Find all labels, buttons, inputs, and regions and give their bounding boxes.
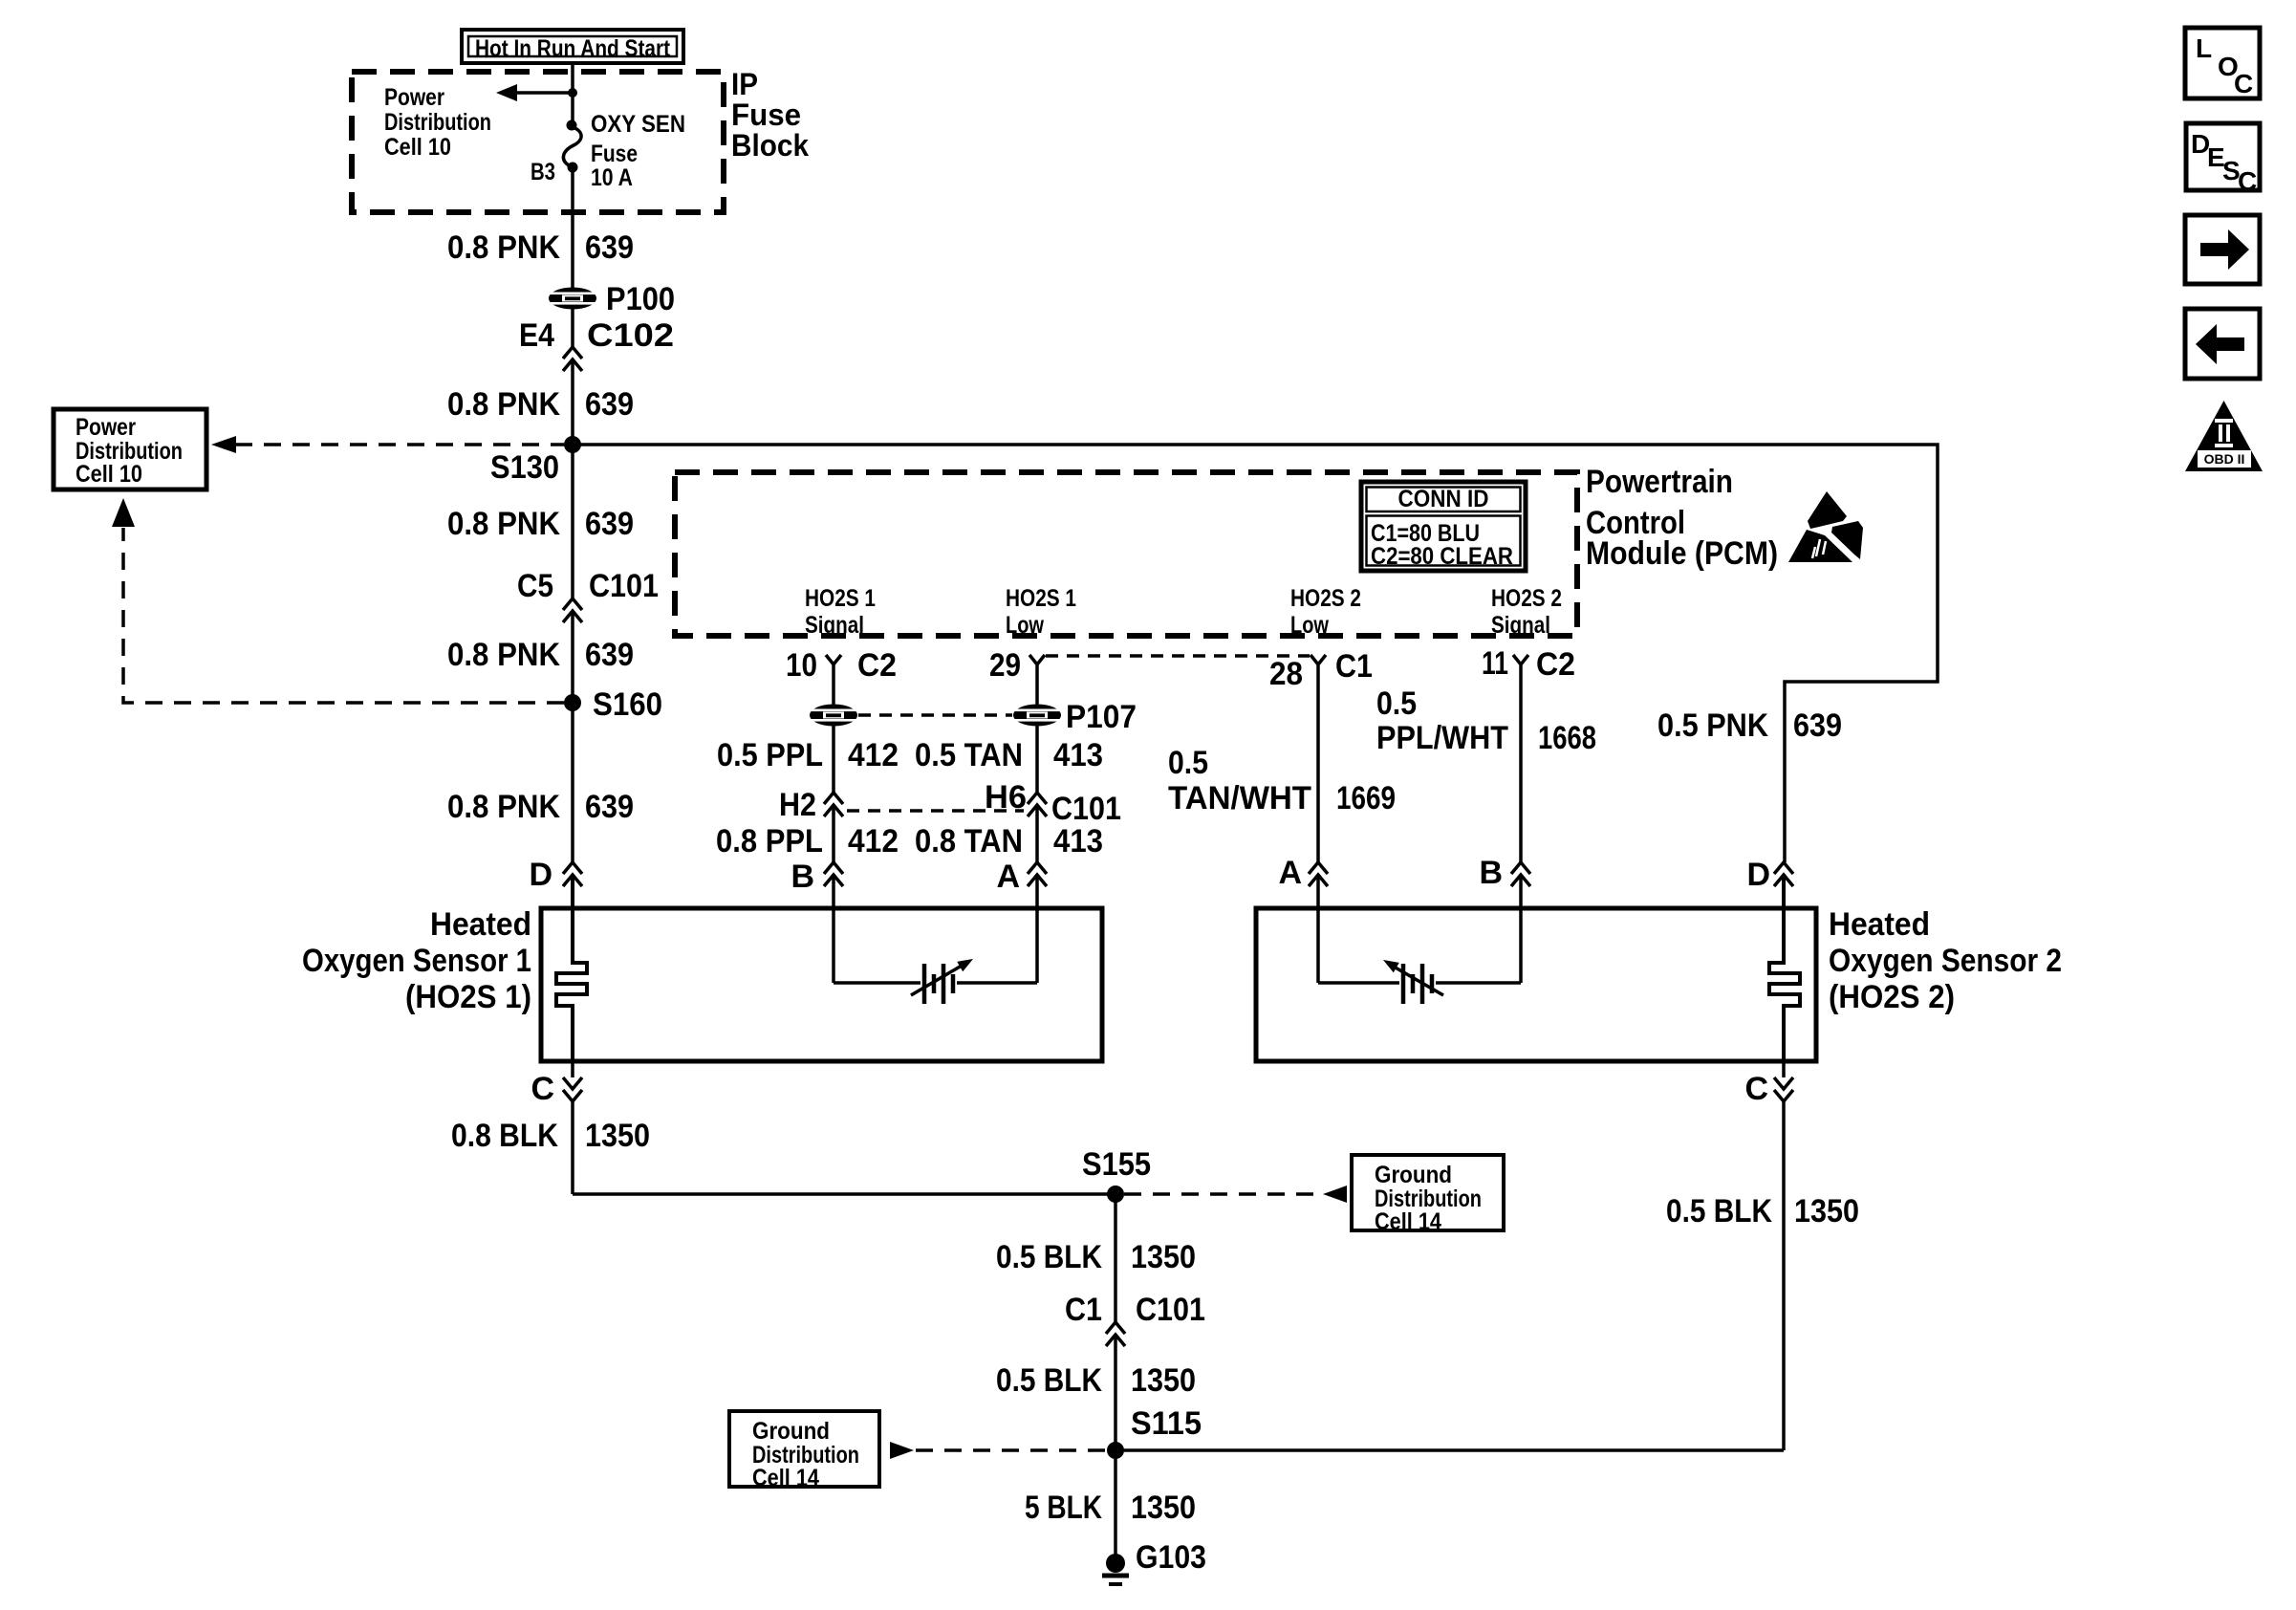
svg-text:IP: IP bbox=[731, 67, 758, 101]
svg-text:C102: C102 bbox=[587, 317, 674, 354]
svg-text:CONN ID: CONN ID bbox=[1398, 486, 1489, 512]
svg-text:0.8 PNK: 0.8 PNK bbox=[447, 229, 560, 266]
svg-text:G103: G103 bbox=[1136, 1539, 1206, 1576]
svg-text:C: C bbox=[2234, 69, 2253, 98]
svg-text:L: L bbox=[2196, 33, 2212, 63]
dashed link between P107 grommets bbox=[858, 713, 1012, 717]
svg-text:Module (PCM): Module (PCM) bbox=[1586, 535, 1778, 572]
svg-text:C101: C101 bbox=[1051, 791, 1121, 827]
svg-text:Hot In Run And Start: Hot In Run And Start bbox=[475, 35, 671, 62]
CONN ID box bbox=[1361, 482, 1526, 571]
splice S155 bbox=[1082, 1146, 1151, 1203]
wire 0.8 TAN 413 (H6 to sensor pin A) bbox=[1035, 805, 1039, 862]
svg-text:Block: Block bbox=[731, 128, 809, 163]
svg-text:H2: H2 bbox=[779, 787, 816, 823]
svg-text:C1: C1 bbox=[1335, 648, 1373, 685]
svg-text:11: 11 bbox=[1482, 645, 1508, 682]
svg-text:S155: S155 bbox=[1082, 1146, 1151, 1183]
wire 0.5 BLK 1350 (HO2S2 C to S115) bbox=[1666, 1101, 1859, 1450]
dashed reference S155 to ground distribution cell 14 bbox=[1124, 1186, 1347, 1203]
svg-text:C: C bbox=[1744, 1071, 1768, 1107]
dashed link pin 29 to pin 28 bbox=[1046, 654, 1310, 658]
svg-text:0.5 BLK: 0.5 BLK bbox=[1666, 1193, 1772, 1229]
wire 0.5 BLK 1350 (S155 to C101) bbox=[996, 1194, 1196, 1322]
svg-text:OXY SEN: OXY SEN bbox=[591, 111, 685, 138]
splice S130 bbox=[490, 436, 581, 486]
svg-text:P107: P107 bbox=[1066, 699, 1137, 735]
HO2S2 pin A bbox=[1278, 855, 1328, 891]
wire 0.8 BLK 1350 (HO2S1 C to S155) bbox=[451, 1101, 1116, 1194]
svg-text:(HO2S 2): (HO2S 2) bbox=[1829, 979, 1955, 1015]
svg-text:C2: C2 bbox=[1536, 646, 1575, 683]
grommet P107 (low wire) bbox=[1013, 699, 1137, 735]
PCM pin name: HO2S 2 Signal bbox=[1491, 585, 1562, 639]
svg-text:HO2S 1: HO2S 1 bbox=[805, 585, 876, 612]
wire S130 to PCM pin D feed (top right run) bbox=[573, 445, 1938, 862]
LOC icon box bbox=[2185, 28, 2260, 98]
svg-text:Signal: Signal bbox=[1491, 612, 1550, 639]
svg-text:(HO2S 1): (HO2S 1) bbox=[405, 979, 531, 1015]
PCM pin name: HO2S 2 Low bbox=[1290, 585, 1361, 639]
svg-text:29: 29 bbox=[989, 647, 1021, 684]
dashed reference S160 to power distribution cell 10 bbox=[112, 498, 564, 703]
PCM dashed box bbox=[675, 472, 1577, 636]
svg-text:639: 639 bbox=[1793, 707, 1842, 744]
HO2S1 label bbox=[302, 906, 531, 1015]
PCM pin 10 C2 bbox=[786, 647, 897, 684]
splice S160 bbox=[564, 686, 662, 723]
ground G103 bbox=[1102, 1539, 1206, 1584]
svg-text:C101: C101 bbox=[1136, 1292, 1205, 1328]
svg-text:C2=80 CLEAR: C2=80 CLEAR bbox=[1371, 543, 1513, 570]
HO2S1 pin C bbox=[531, 1061, 582, 1107]
svg-text:Fuse: Fuse bbox=[591, 141, 638, 167]
wire pin29 to P107 bbox=[1035, 677, 1039, 706]
svg-text:0.8 BLK: 0.8 BLK bbox=[451, 1118, 558, 1154]
svg-text:639: 639 bbox=[585, 506, 634, 542]
svg-text:Signal: Signal bbox=[805, 612, 864, 639]
wire S130 to C101: 0.8 PNK 639 bbox=[571, 445, 574, 598]
wire 0.8 PPL 412 (H2 to sensor pin B) bbox=[832, 805, 835, 862]
svg-text:Oxygen Sensor 1: Oxygen Sensor 1 bbox=[302, 943, 531, 979]
HO2S2 pin B bbox=[1479, 855, 1530, 891]
heater element HO2S2 bbox=[1769, 875, 1800, 1061]
svg-text:Heated: Heated bbox=[430, 906, 531, 943]
wire 5 BLK 1350 (S115 to G103) bbox=[1025, 1450, 1196, 1563]
svg-text:B: B bbox=[1479, 855, 1503, 891]
wire: hot feed into fuse block bbox=[571, 63, 574, 125]
svg-text:0.5: 0.5 bbox=[1168, 745, 1208, 781]
svg-text:412: 412 bbox=[848, 737, 899, 773]
wire C101 to S160: 0.8 PNK 639 bbox=[571, 611, 574, 703]
svg-text:1669: 1669 bbox=[1336, 780, 1396, 816]
svg-text:639: 639 bbox=[585, 386, 634, 423]
title box: Hot In Run And Start bbox=[462, 30, 683, 63]
svg-text:413: 413 bbox=[1053, 737, 1103, 773]
HO2S1 inner wire pin A bbox=[1035, 875, 1039, 983]
svg-text:HO2S 2: HO2S 2 bbox=[1290, 585, 1361, 612]
wire pin10 to P107 bbox=[832, 677, 835, 706]
svg-text:B3: B3 bbox=[531, 159, 555, 185]
svg-text:1350: 1350 bbox=[1131, 1239, 1196, 1275]
svg-text:0.8 PNK: 0.8 PNK bbox=[447, 637, 560, 673]
svg-text:C5: C5 bbox=[517, 568, 553, 604]
wire 0.8 PNK 639 (fuse to P100) bbox=[571, 167, 574, 289]
dashed reference S115 to ground distribution cell 14 (left) bbox=[890, 1442, 1107, 1459]
HO2S1 pin D bbox=[529, 857, 582, 893]
svg-text:0.5: 0.5 bbox=[1376, 685, 1417, 722]
OBD II icon bbox=[2185, 401, 2263, 471]
IP fuse block dashed box bbox=[352, 72, 724, 212]
HO2S1 pin B bbox=[791, 859, 843, 895]
svg-text:0.5 BLK: 0.5 BLK bbox=[996, 1362, 1102, 1399]
svg-text:0.8 PNK: 0.8 PNK bbox=[447, 506, 560, 542]
svg-text:Distribution: Distribution bbox=[384, 109, 491, 136]
svg-text:Heated: Heated bbox=[1829, 906, 1930, 943]
svg-text:HO2S 2: HO2S 2 bbox=[1491, 585, 1562, 612]
ground distribution cell 14 box (right) bbox=[1352, 1155, 1504, 1235]
svg-text:PPL/WHT: PPL/WHT bbox=[1376, 720, 1508, 756]
svg-text:Fuse: Fuse bbox=[731, 98, 801, 132]
wire 0.5 PPL/WHT 1668 (pin 11 to sensor 2 pin B) bbox=[1519, 677, 1523, 862]
svg-text:639: 639 bbox=[585, 789, 634, 825]
svg-text:C1: C1 bbox=[1065, 1292, 1102, 1328]
ground distribution cell 14 box (left) bbox=[729, 1411, 879, 1491]
connector C101 terminal C5 bbox=[517, 568, 659, 622]
svg-text:Cell 10: Cell 10 bbox=[76, 461, 142, 488]
svg-text:10 A: 10 A bbox=[591, 164, 633, 191]
power distribution cell 10 box bbox=[54, 409, 206, 490]
svg-text:Oxygen Sensor 2: Oxygen Sensor 2 bbox=[1829, 943, 2062, 979]
svg-text:S130: S130 bbox=[490, 449, 559, 486]
wire 0.5 BLK 1350 (C101 to S115) bbox=[996, 1335, 1196, 1450]
heated oxygen sensor 2 box bbox=[1256, 908, 1816, 1061]
svg-text:Cell 14: Cell 14 bbox=[752, 1465, 819, 1491]
DESC icon box bbox=[2186, 123, 2260, 196]
HO2S2 pin C bbox=[1744, 1061, 1793, 1107]
PCM pin 11 C2 bbox=[1482, 645, 1575, 683]
svg-text:OBD II: OBD II bbox=[2204, 451, 2245, 467]
svg-text:Powertrain: Powertrain bbox=[1586, 464, 1733, 500]
PCM pin 29 bbox=[989, 647, 1045, 684]
wire S115 to HO2S2 C branch bbox=[1116, 1448, 1784, 1452]
wire 0.5 TAN 413 (P107 to H6) bbox=[1035, 726, 1039, 793]
HO2S1 sensing element (variable cell with arrow) bbox=[834, 959, 1037, 1004]
svg-text:1350: 1350 bbox=[585, 1118, 650, 1154]
PCM pin name: HO2S 1 Signal bbox=[805, 585, 876, 639]
power distribution cell 10 text (inside fuse block) bbox=[384, 84, 491, 161]
svg-text:1350: 1350 bbox=[1131, 1362, 1196, 1399]
HO2S1 inner wire pin B bbox=[832, 875, 835, 983]
svg-text:Ground: Ground bbox=[1375, 1162, 1452, 1188]
grommet P107 (signal wire) bbox=[810, 705, 857, 727]
svg-text:D: D bbox=[1746, 857, 1770, 893]
grommet P100 bbox=[549, 281, 675, 317]
svg-text:P100: P100 bbox=[606, 281, 675, 317]
connector C101 terminal C1 bbox=[1065, 1292, 1205, 1346]
svg-text:E4: E4 bbox=[519, 317, 554, 354]
wire 0.5 TAN/WHT 1669 (pin 28 to sensor 2 pin A) bbox=[1316, 677, 1320, 862]
svg-text:1668: 1668 bbox=[1538, 720, 1596, 756]
svg-text:Ground: Ground bbox=[752, 1418, 830, 1445]
HO2S1 pin A bbox=[996, 859, 1047, 895]
wire S160 to HO2S1 pin D: 0.8 PNK 639 bbox=[571, 703, 574, 862]
svg-text:S160: S160 bbox=[593, 686, 662, 723]
svg-text:0.8 PNK: 0.8 PNK bbox=[447, 386, 560, 423]
svg-text:28: 28 bbox=[1269, 656, 1303, 692]
IP fuse block label bbox=[731, 67, 809, 163]
svg-text:0.8 PPL: 0.8 PPL bbox=[716, 823, 823, 859]
PCM label: Powertrain Control Module (PCM) bbox=[1586, 464, 1778, 572]
back arrow icon box bbox=[2185, 309, 2260, 379]
svg-text:0.8 TAN: 0.8 TAN bbox=[915, 823, 1023, 859]
wire P100 to connector C102 bbox=[571, 309, 574, 347]
PCM pin 28 C1 bbox=[1269, 648, 1373, 692]
HO2S2 pin D bbox=[1746, 857, 1793, 893]
ESD sensitivity symbol bbox=[1788, 491, 1863, 562]
HO2S2 inner wire pin A bbox=[1316, 875, 1320, 983]
svg-text:S115: S115 bbox=[1131, 1405, 1202, 1442]
connector C101 terminal H6 bbox=[985, 779, 1121, 827]
svg-text:B: B bbox=[791, 859, 814, 895]
svg-text:0.5 PNK: 0.5 PNK bbox=[1657, 707, 1768, 744]
svg-text:639: 639 bbox=[585, 229, 634, 266]
svg-text:Power: Power bbox=[384, 84, 444, 111]
svg-text:1350: 1350 bbox=[1794, 1193, 1859, 1229]
forward arrow icon box bbox=[2185, 215, 2260, 284]
fuse: OXY SEN Fuse 10 A bbox=[531, 111, 685, 191]
svg-text:0.5 BLK: 0.5 BLK bbox=[996, 1239, 1102, 1275]
svg-text:0.5 PPL: 0.5 PPL bbox=[717, 737, 823, 773]
svg-text:0.5 TAN: 0.5 TAN bbox=[915, 737, 1023, 773]
PCM pin name: HO2S 1 Low bbox=[1006, 585, 1076, 639]
svg-text:1350: 1350 bbox=[1131, 1490, 1196, 1526]
heated oxygen sensor 1 box bbox=[541, 908, 1102, 1061]
svg-text:Power: Power bbox=[76, 414, 136, 441]
svg-text:Cell 10: Cell 10 bbox=[384, 134, 451, 161]
svg-text:Low: Low bbox=[1006, 612, 1044, 639]
splice S115 bbox=[1107, 1405, 1202, 1459]
dashed link H2 to H6 bbox=[847, 809, 1024, 813]
svg-text:C: C bbox=[531, 1071, 554, 1107]
svg-text:412: 412 bbox=[848, 823, 899, 859]
connector C102 terminal E4 bbox=[519, 317, 674, 371]
HO2S2 label bbox=[1829, 906, 2062, 1015]
HO2S2 inner wire pin B bbox=[1519, 875, 1523, 983]
arrow to power distribution (inside fuse block) bbox=[496, 84, 577, 101]
heater element HO2S1 bbox=[556, 875, 587, 1061]
svg-text:Cell 14: Cell 14 bbox=[1375, 1208, 1441, 1235]
svg-text:413: 413 bbox=[1053, 823, 1103, 859]
wire C102 to S130: 0.8 PNK 639 bbox=[571, 359, 574, 445]
svg-text:A: A bbox=[996, 859, 1020, 895]
connector C101 terminal H2 bbox=[779, 787, 843, 823]
HO2S2 sensing element (variable cell with arrow) bbox=[1318, 960, 1521, 1004]
svg-text:D: D bbox=[529, 857, 552, 893]
svg-text:0.8 PNK: 0.8 PNK bbox=[447, 789, 560, 825]
svg-text:C: C bbox=[2238, 166, 2257, 196]
wire 0.5 PPL 412 (P107 to H2) bbox=[832, 726, 835, 793]
svg-text:C101: C101 bbox=[589, 568, 659, 604]
svg-text:639: 639 bbox=[585, 637, 634, 673]
svg-text:10: 10 bbox=[786, 647, 817, 684]
svg-text:5 BLK: 5 BLK bbox=[1025, 1490, 1102, 1526]
svg-text:HO2S 1: HO2S 1 bbox=[1006, 585, 1076, 612]
svg-text:Low: Low bbox=[1290, 612, 1329, 639]
dashed reference S130 to power distribution cell 10 bbox=[211, 436, 564, 453]
svg-text:TAN/WHT: TAN/WHT bbox=[1168, 780, 1311, 816]
svg-text:A: A bbox=[1278, 855, 1302, 891]
svg-text:C2: C2 bbox=[857, 647, 897, 684]
